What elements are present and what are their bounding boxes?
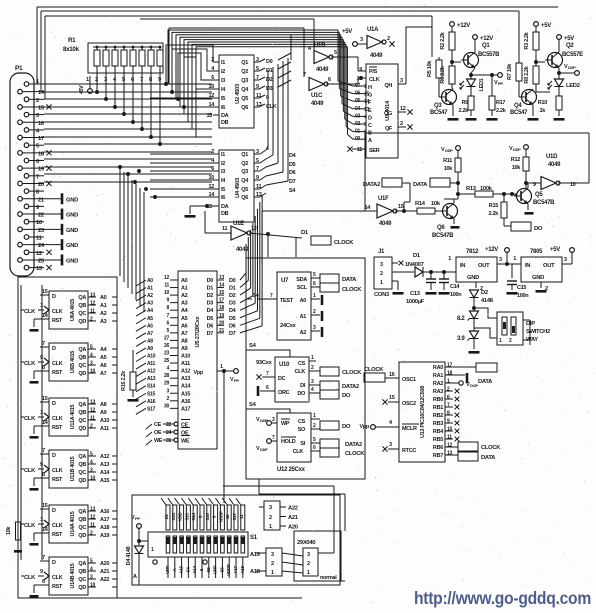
svg-text:Q1: Q1	[241, 152, 248, 158]
svg-text:A7: A7	[181, 331, 188, 337]
svg-text:D7: D7	[207, 331, 214, 337]
svg-text:DC: DC	[278, 376, 286, 382]
svg-text:13: 13	[447, 451, 452, 457]
svg-text:Q3: Q3	[241, 78, 248, 84]
svg-text:CLK: CLK	[24, 416, 36, 422]
svg-text:Q5: Q5	[241, 187, 248, 193]
svg-text:QD: QD	[78, 371, 86, 377]
svg-text:6: 6	[42, 579, 45, 585]
svg-text:CLK: CLK	[369, 77, 380, 83]
svg-text:17: 17	[219, 298, 224, 304]
svg-text:D6: D6	[289, 170, 296, 176]
svg-text:S4: S4	[185, 567, 190, 573]
svg-text:QF: QF	[385, 126, 393, 132]
svg-text:S14: S14	[191, 513, 196, 521]
svg-text:BC557B: BC557B	[478, 52, 500, 58]
svg-text:11: 11	[447, 435, 452, 441]
svg-text:13: 13	[90, 400, 95, 406]
svg-text:A0: A0	[300, 298, 307, 304]
svg-text:A20: A20	[100, 561, 109, 567]
svg-text:A17: A17	[181, 406, 190, 412]
svg-text:I1: I1	[221, 60, 225, 66]
svg-text:U1B: U1B	[314, 43, 326, 49]
svg-text:A5: A5	[100, 355, 107, 361]
svg-text:A14: A14	[192, 565, 197, 573]
svg-text:DDP: DDP	[513, 147, 521, 152]
svg-text:QB: QB	[78, 355, 86, 361]
svg-text:U4 4503: U4 4503	[235, 177, 241, 198]
svg-text:QB: QB	[78, 410, 86, 416]
svg-text:10: 10	[208, 84, 214, 90]
svg-text:D: D	[52, 346, 56, 352]
svg-text:1: 1	[513, 256, 516, 262]
svg-text:31: 31	[166, 438, 171, 444]
svg-text:QA: QA	[78, 454, 86, 460]
svg-text:DATA2: DATA2	[342, 384, 359, 390]
svg-text:CLK: CLK	[295, 369, 306, 375]
svg-text:A15: A15	[181, 391, 190, 397]
svg-text:A8: A8	[181, 338, 188, 344]
svg-text:QH: QH	[384, 83, 392, 89]
svg-text:SCL: SCL	[297, 285, 308, 291]
svg-text:12: 12	[208, 93, 214, 99]
svg-text:+5V: +5V	[541, 23, 551, 29]
svg-text:DDP: DDP	[260, 447, 268, 452]
svg-text:A5: A5	[181, 316, 188, 322]
svg-text:R2 2.2k: R2 2.2k	[440, 31, 446, 49]
svg-text:A2: A2	[147, 293, 153, 299]
svg-text:RB4: RB4	[433, 429, 444, 435]
svg-text:GND: GND	[66, 243, 78, 249]
svg-text:10: 10	[225, 514, 230, 519]
svg-text:WP: WP	[281, 421, 290, 427]
svg-text:29X040: 29X040	[297, 540, 315, 546]
svg-text:VDDP: VDDP	[218, 511, 223, 523]
svg-text:D5: D5	[229, 316, 236, 322]
svg-text:GND: GND	[66, 197, 78, 203]
svg-text:D: D	[52, 508, 56, 514]
svg-text:Q1: Q1	[241, 60, 248, 66]
svg-text:CLK: CLK	[24, 523, 36, 529]
svg-text:QD: QD	[78, 319, 86, 325]
svg-text:10k: 10k	[6, 526, 12, 536]
svg-text:A1: A1	[300, 314, 307, 320]
svg-text:16: 16	[389, 372, 395, 378]
svg-text:R7 10k: R7 10k	[507, 63, 513, 80]
svg-text:A2: A2	[181, 293, 188, 299]
svg-text:U6A 4015: U6A 4015	[70, 299, 76, 321]
svg-text:A10: A10	[181, 354, 190, 360]
svg-text:15: 15	[389, 395, 395, 401]
svg-text:A: A	[368, 138, 372, 144]
svg-text:GND: GND	[467, 275, 479, 281]
svg-text:I6: I6	[221, 105, 225, 111]
svg-text:S13: S13	[184, 513, 189, 521]
svg-text:QC: QC	[78, 577, 86, 583]
svg-text:C15: C15	[517, 285, 526, 291]
svg-text:D7: D7	[289, 179, 296, 185]
svg-text:3: 3	[400, 78, 403, 84]
svg-text:RA3: RA3	[433, 389, 443, 395]
svg-text:D: D	[52, 401, 56, 407]
svg-text:normal: normal	[320, 575, 337, 581]
svg-text:15: 15	[42, 289, 48, 295]
svg-text:26: 26	[164, 343, 169, 349]
svg-text:11: 11	[164, 283, 169, 289]
svg-text:D0: D0	[229, 278, 236, 284]
svg-text:D: D	[52, 453, 56, 459]
svg-text:22: 22	[38, 213, 44, 219]
svg-text:+12V: +12V	[480, 36, 493, 42]
svg-text:A12: A12	[181, 369, 190, 375]
svg-text:3: 3	[389, 442, 392, 448]
svg-text:4148: 4148	[481, 298, 494, 304]
svg-text:QB: QB	[78, 569, 86, 575]
svg-text:10: 10	[36, 220, 42, 226]
svg-text:RST: RST	[52, 477, 63, 483]
svg-text:10: 10	[90, 583, 95, 589]
svg-text:A15: A15	[179, 565, 184, 573]
svg-text:R10: R10	[538, 100, 547, 106]
svg-text:CLK: CLK	[52, 575, 63, 581]
svg-text:DATA: DATA	[342, 277, 357, 283]
svg-text:A0: A0	[181, 278, 188, 284]
svg-text:7805: 7805	[530, 249, 543, 255]
svg-text:+12V: +12V	[457, 23, 470, 29]
svg-text:11: 11	[90, 309, 95, 315]
svg-text:25: 25	[164, 358, 169, 364]
svg-text:VPP: VPP	[213, 566, 218, 575]
svg-text:DO: DO	[342, 424, 351, 430]
svg-text:Q2: Q2	[566, 43, 574, 49]
svg-text:A13: A13	[147, 376, 156, 382]
svg-text:CLK: CLK	[52, 523, 63, 529]
svg-text:S1: S1	[250, 535, 258, 541]
svg-text:U12 25Cxx: U12 25Cxx	[277, 467, 306, 473]
svg-text:4049: 4049	[236, 247, 249, 253]
svg-text:D1: D1	[266, 68, 273, 74]
svg-text:Q2: Q2	[241, 69, 248, 75]
svg-text:3.9: 3.9	[457, 336, 465, 342]
svg-text:A8: A8	[147, 338, 153, 344]
svg-text:Q4: Q4	[514, 103, 522, 109]
svg-text:D6: D6	[207, 323, 214, 329]
svg-text:27: 27	[164, 335, 169, 341]
svg-text:A11: A11	[147, 361, 156, 367]
svg-text:A9: A9	[181, 346, 188, 352]
svg-text:C13: C13	[410, 291, 421, 297]
svg-text:QA: QA	[78, 561, 86, 567]
svg-text:RA2: RA2	[433, 381, 443, 387]
svg-text:RB7: RB7	[433, 453, 443, 459]
svg-text:RST: RST	[52, 318, 63, 324]
svg-text:RST: RST	[52, 370, 63, 376]
svg-text:BC547: BC547	[510, 110, 528, 116]
svg-text:6: 6	[328, 77, 331, 83]
svg-text:2: 2	[400, 121, 403, 127]
svg-text:30: 30	[164, 403, 169, 409]
svg-text:D2: D2	[481, 290, 488, 296]
svg-text:OUT: OUT	[478, 263, 490, 269]
svg-text:A10: A10	[100, 418, 109, 424]
svg-text:12: 12	[164, 275, 169, 281]
svg-text:1: 1	[271, 570, 274, 576]
svg-text:S15: S15	[147, 391, 156, 397]
svg-text:P1: P1	[15, 65, 23, 72]
svg-text:A7: A7	[100, 371, 107, 377]
svg-text:R17: R17	[496, 100, 505, 106]
svg-text:A17: A17	[100, 517, 109, 523]
svg-text:A0: A0	[147, 278, 153, 284]
svg-text:4049: 4049	[370, 53, 383, 59]
svg-text:OUT: OUT	[543, 263, 555, 269]
svg-text:CLK: CLK	[293, 449, 304, 455]
svg-text:J1: J1	[378, 249, 385, 255]
svg-text:BC547B: BC547B	[533, 200, 555, 206]
svg-text:CLK: CLK	[52, 468, 63, 474]
svg-text:12: 12	[400, 106, 406, 112]
svg-text:A2: A2	[300, 330, 307, 336]
svg-text:10: 10	[164, 290, 169, 296]
svg-text:QB: QB	[78, 462, 86, 468]
svg-text:Vpp: Vpp	[360, 424, 370, 430]
svg-text:CLK: CLK	[24, 309, 36, 315]
svg-text:QD: QD	[78, 585, 86, 591]
svg-text:15: 15	[398, 204, 404, 210]
svg-text:DOP: DOP	[470, 383, 478, 388]
svg-text:A11: A11	[100, 426, 109, 432]
svg-text:QB: QB	[78, 303, 86, 309]
svg-text:S17: S17	[147, 406, 156, 412]
svg-text:A16: A16	[147, 399, 156, 405]
svg-text:A2: A2	[100, 311, 107, 317]
svg-text:R12: R12	[511, 157, 520, 163]
svg-text:D6: D6	[229, 323, 236, 329]
svg-text:21: 21	[219, 328, 224, 334]
svg-text:14: 14	[364, 99, 369, 105]
svg-text:A13: A13	[100, 462, 109, 468]
svg-text:DATA2: DATA2	[363, 182, 380, 188]
svg-text:+12V: +12V	[485, 247, 498, 253]
svg-text:OSC2: OSC2	[402, 401, 416, 407]
svg-text:RB6: RB6	[433, 445, 443, 451]
svg-text:12: 12	[208, 184, 214, 190]
svg-text:12: 12	[90, 301, 95, 307]
svg-text:DATA: DATA	[413, 182, 428, 188]
svg-text:DO: DO	[297, 391, 306, 397]
svg-text:S17: S17	[232, 513, 237, 521]
svg-text:DB: DB	[221, 120, 229, 126]
svg-text:QA: QA	[78, 295, 86, 301]
svg-text:A10: A10	[147, 354, 156, 360]
svg-text:DB: DB	[221, 211, 229, 217]
svg-text:GND: GND	[66, 258, 78, 264]
svg-text:S16: S16	[205, 513, 210, 521]
svg-text:A1: A1	[100, 303, 107, 309]
svg-text:DDP: DDP	[568, 65, 576, 70]
svg-text:Q3: Q3	[434, 103, 442, 109]
svg-text:4049: 4049	[311, 101, 324, 107]
svg-text:13: 13	[256, 192, 262, 198]
svg-text:D1: D1	[301, 230, 309, 236]
svg-text:U6B 4015: U6B 4015	[70, 351, 76, 374]
svg-text:http://www.go-gddq.com: http://www.go-gddq.com	[414, 588, 591, 608]
svg-text:10: 10	[447, 427, 452, 433]
svg-text:10k: 10k	[431, 201, 441, 207]
svg-text:23: 23	[164, 351, 169, 357]
svg-text:D: D	[52, 560, 56, 566]
svg-text:R8 2.2k: R8 2.2k	[524, 65, 530, 83]
svg-text:QC: QC	[78, 418, 86, 424]
svg-text:15: 15	[206, 113, 212, 119]
svg-text:I6: I6	[221, 195, 225, 201]
svg-text:U14A 4015: U14A 4015	[70, 511, 76, 536]
svg-text:RST: RST	[52, 532, 63, 538]
svg-text:15: 15	[42, 503, 48, 509]
svg-text:2: 2	[269, 515, 272, 521]
svg-text:A3: A3	[100, 319, 107, 325]
svg-text:A12: A12	[147, 369, 156, 375]
svg-text:D3: D3	[207, 301, 214, 307]
svg-text:R16 2.2k: R16 2.2k	[121, 370, 127, 391]
svg-text:OE: OE	[154, 430, 162, 436]
svg-text:A19: A19	[100, 533, 109, 539]
svg-text:12: 12	[90, 515, 95, 521]
svg-text:QD: QD	[78, 478, 86, 484]
svg-text:28: 28	[164, 373, 169, 379]
svg-text:C14: C14	[450, 284, 460, 290]
svg-text:U1F: U1F	[378, 196, 389, 202]
svg-text:DI: DI	[300, 383, 306, 389]
svg-text:R15: R15	[489, 203, 498, 209]
svg-text:U1D: U1D	[546, 154, 558, 160]
svg-text:2: 2	[307, 561, 310, 567]
svg-text:Q1: Q1	[482, 43, 490, 49]
svg-text:D7: D7	[229, 331, 236, 337]
svg-text:9: 9	[256, 84, 259, 90]
svg-text:15: 15	[219, 290, 224, 296]
svg-text:17: 17	[38, 136, 44, 142]
svg-text:5: 5	[334, 50, 337, 56]
svg-text:D2: D2	[229, 293, 236, 299]
svg-text:U10: U10	[279, 362, 290, 368]
svg-text:3: 3	[256, 149, 259, 155]
svg-text:A12: A12	[100, 454, 109, 460]
svg-text:A17: A17	[233, 565, 238, 573]
svg-text:A22: A22	[288, 506, 298, 512]
svg-text:2.2k: 2.2k	[496, 108, 507, 114]
svg-text:1: 1	[307, 570, 310, 576]
svg-text:3: 3	[307, 552, 310, 558]
svg-text:CLK: CLK	[52, 309, 63, 315]
svg-text:QD: QD	[78, 426, 86, 432]
svg-text:RTCC: RTCC	[402, 448, 416, 454]
svg-text:CLK: CLK	[52, 361, 63, 367]
svg-text:D1: D1	[229, 286, 236, 292]
svg-text:R3 2.2k: R3 2.2k	[524, 31, 530, 49]
svg-text:D4 4148: D4 4148	[126, 546, 132, 565]
svg-text:11: 11	[222, 226, 227, 232]
svg-text:100n: 100n	[450, 292, 462, 298]
svg-text:2: 2	[36, 98, 39, 104]
svg-text:D3: D3	[266, 86, 273, 92]
svg-text:RB2: RB2	[433, 413, 443, 419]
svg-text:MCLR: MCLR	[402, 426, 417, 432]
svg-text:A7: A7	[147, 331, 153, 337]
svg-text:2.2k: 2.2k	[488, 211, 499, 217]
svg-text:9: 9	[359, 67, 362, 73]
svg-text:P/S: P/S	[369, 69, 378, 75]
svg-text:1000µF: 1000µF	[406, 299, 425, 305]
svg-text:CLOCK: CLOCK	[342, 370, 362, 376]
svg-text:A: A	[133, 574, 137, 580]
svg-text:CLK: CLK	[24, 361, 36, 367]
svg-text:A9: A9	[147, 346, 153, 352]
svg-text:R14: R14	[415, 201, 426, 207]
svg-text:A14: A14	[100, 470, 110, 476]
svg-text:DDP: DDP	[445, 148, 453, 153]
svg-text:S4: S4	[249, 343, 257, 349]
svg-text:U1C: U1C	[311, 93, 323, 99]
svg-text:B: B	[368, 131, 372, 137]
svg-text:Q3: Q3	[241, 169, 248, 175]
svg-text:A4: A4	[147, 308, 153, 314]
svg-text:7812: 7812	[466, 249, 479, 255]
svg-text:7: 7	[256, 75, 259, 81]
svg-text:Q2: Q2	[241, 161, 248, 167]
svg-text:D3: D3	[229, 301, 236, 307]
svg-text:RB1: RB1	[433, 405, 443, 411]
svg-text:4049: 4049	[548, 162, 561, 168]
svg-text:PP: PP	[135, 516, 140, 521]
svg-text:CON3: CON3	[374, 292, 390, 298]
svg-text:U7: U7	[281, 278, 289, 284]
svg-text:10: 10	[208, 175, 214, 181]
svg-text:5: 5	[256, 158, 259, 164]
svg-text:U5 27/28Cxx: U5 27/28Cxx	[195, 315, 201, 347]
svg-text:1: 1	[220, 364, 223, 370]
svg-text:U13 PIC16C84/12C508: U13 PIC16C84/12C508	[420, 386, 426, 438]
svg-text:BC547B: BC547B	[432, 233, 454, 239]
svg-text:D0: D0	[266, 59, 273, 65]
svg-text:CLOCK: CLOCK	[342, 287, 362, 293]
svg-text:D: D	[368, 115, 372, 121]
svg-text:U2 4503: U2 4503	[235, 83, 241, 104]
svg-text:CLOCK: CLOCK	[364, 367, 384, 373]
svg-text:S6: S6	[219, 567, 224, 573]
svg-text:S15: S15	[171, 513, 176, 521]
svg-text:93Cxx: 93Cxx	[256, 360, 273, 366]
svg-text:S14: S14	[147, 384, 156, 390]
svg-text:2: 2	[380, 271, 383, 277]
svg-text:18: 18	[219, 305, 224, 311]
svg-text:D5: D5	[207, 316, 214, 322]
svg-text:1: 1	[380, 280, 383, 286]
svg-text:WE: WE	[181, 439, 190, 445]
svg-text:PP: PP	[234, 378, 239, 383]
svg-text:BC557E: BC557E	[562, 52, 583, 58]
svg-text:IN: IN	[525, 263, 530, 269]
svg-text:H: H	[368, 85, 372, 91]
svg-text:D1: D1	[207, 286, 214, 292]
svg-text:U14B 4015: U14B 4015	[70, 563, 76, 588]
svg-text:13: 13	[256, 102, 262, 108]
svg-text:I3: I3	[221, 78, 225, 84]
svg-text:RST: RST	[52, 584, 63, 590]
svg-text:A18: A18	[100, 525, 109, 531]
svg-text:12: 12	[251, 226, 257, 232]
svg-text:11: 11	[239, 514, 244, 519]
